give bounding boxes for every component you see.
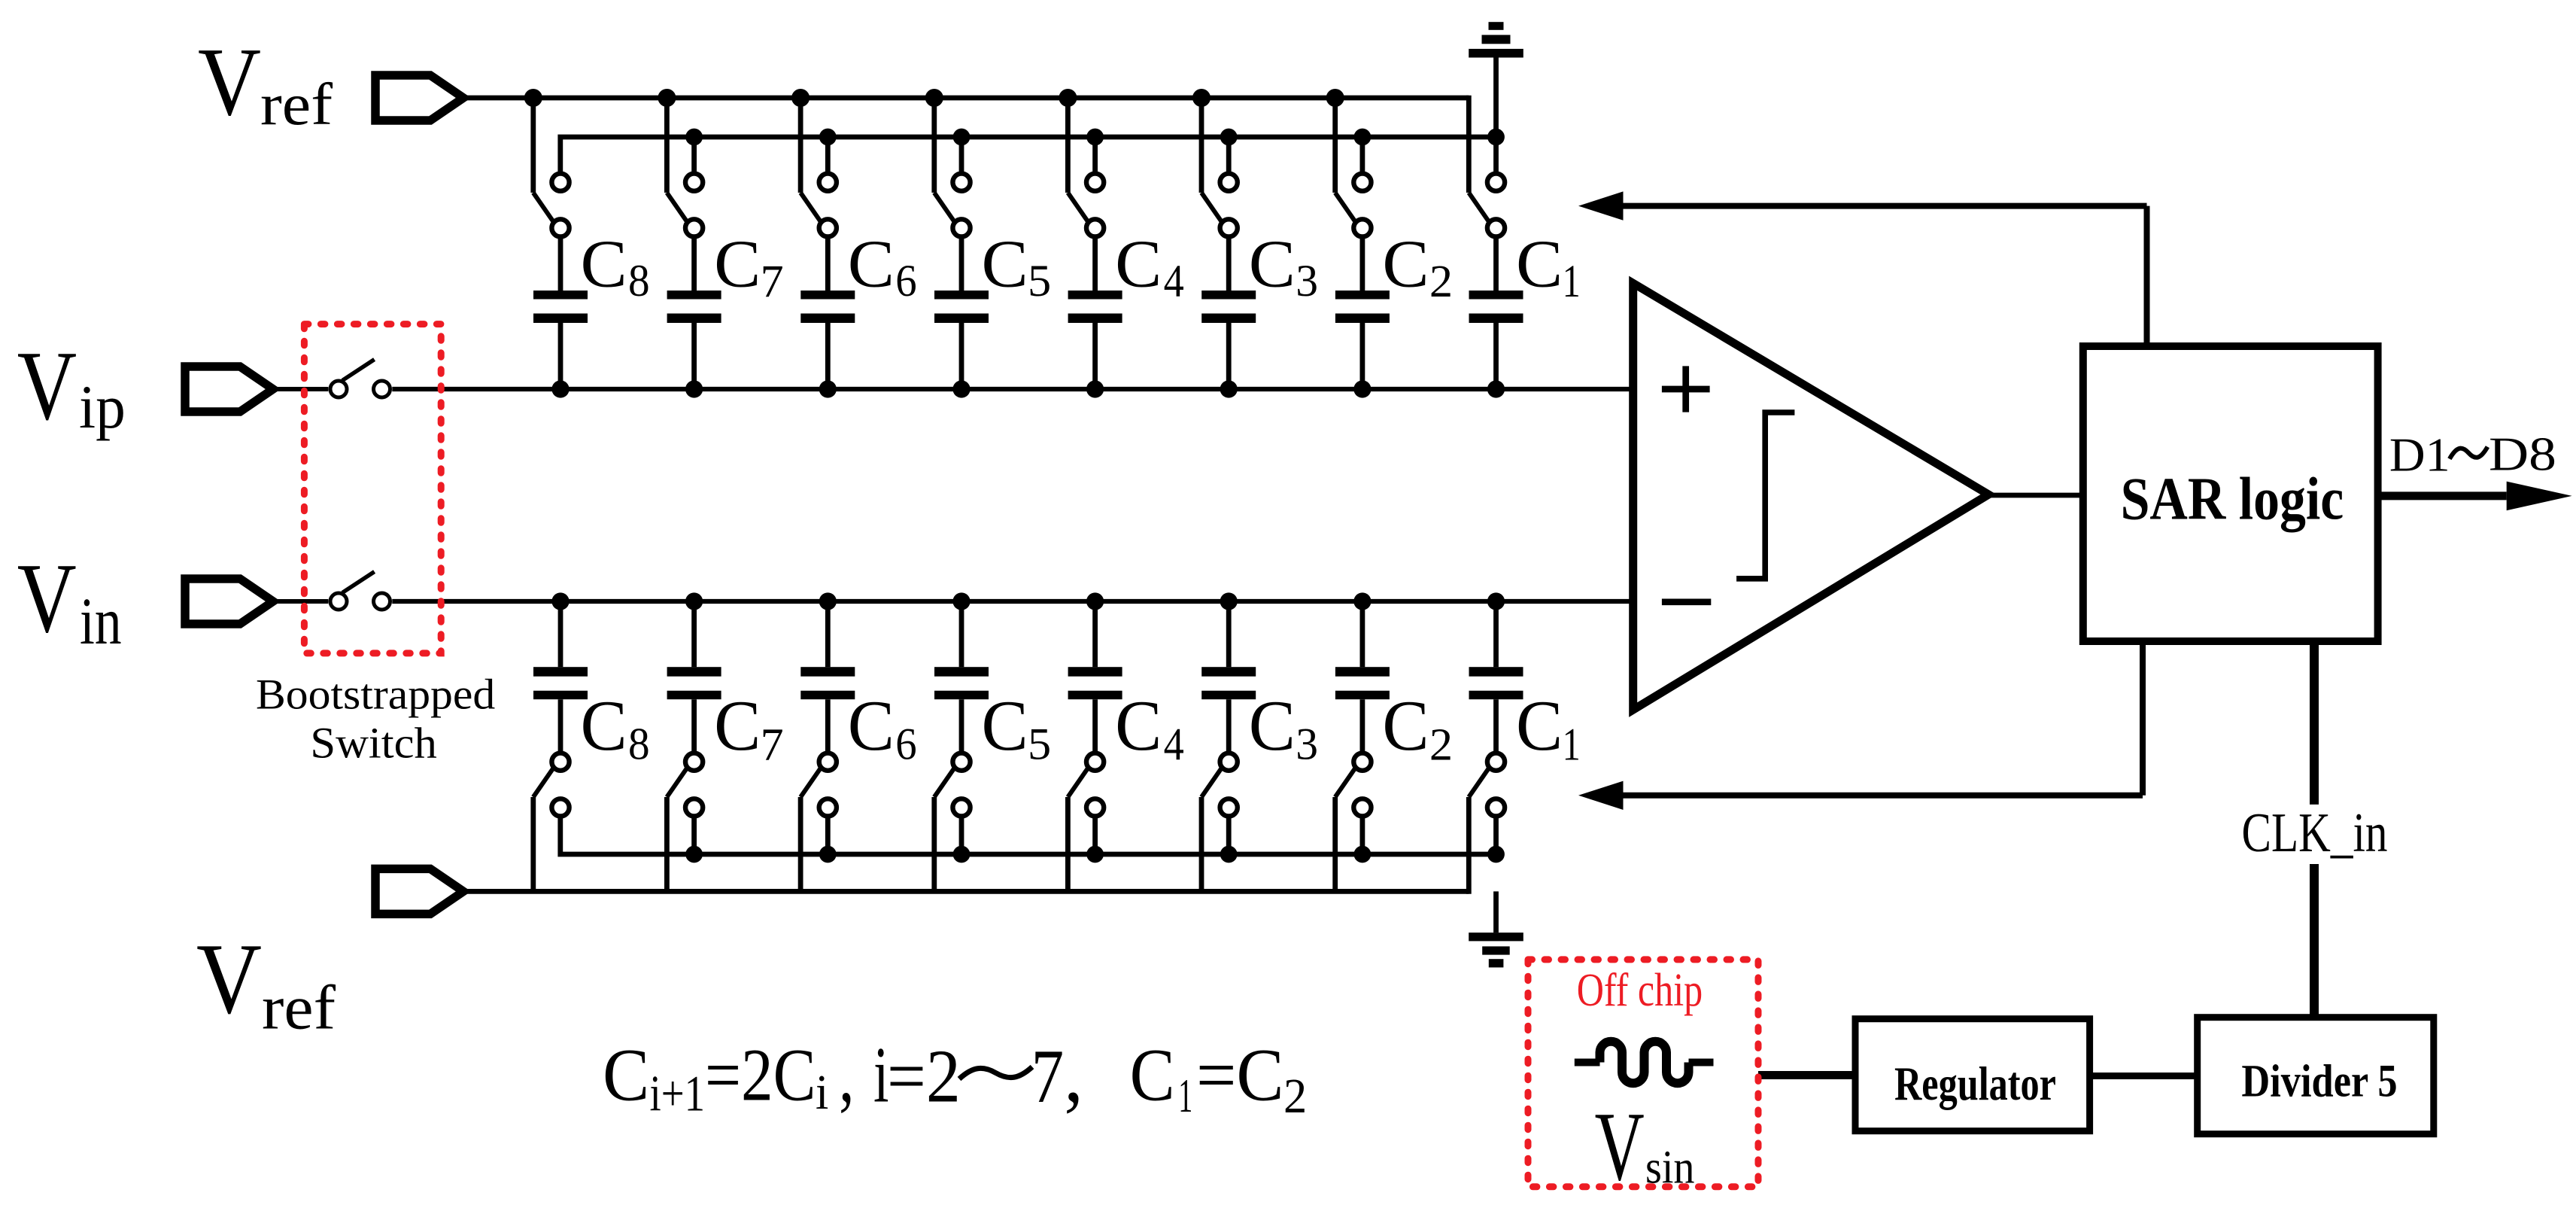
svg-text:C: C bbox=[581, 686, 627, 765]
svg-text:ref: ref bbox=[262, 972, 336, 1042]
svg-text:C: C bbox=[1115, 686, 1162, 765]
svg-text:C: C bbox=[714, 226, 761, 302]
svg-text:,: , bbox=[839, 1031, 855, 1118]
svg-text:C: C bbox=[1130, 1033, 1175, 1117]
svg-text:5: 5 bbox=[1028, 720, 1051, 770]
svg-text:6: 6 bbox=[895, 256, 916, 306]
svg-text:C: C bbox=[714, 686, 761, 765]
svg-text:2: 2 bbox=[1429, 256, 1453, 307]
svg-text:D8: D8 bbox=[2489, 427, 2556, 480]
svg-text:V: V bbox=[196, 923, 262, 1035]
svg-text:V: V bbox=[17, 543, 77, 653]
svg-text:C: C bbox=[1249, 226, 1296, 302]
svg-text:7: 7 bbox=[1031, 1033, 1065, 1118]
svg-text:C: C bbox=[581, 226, 627, 302]
svg-text:C: C bbox=[848, 226, 895, 302]
svg-text:2: 2 bbox=[1283, 1070, 1307, 1124]
svg-text:Divider 5: Divider 5 bbox=[2241, 1056, 2397, 1107]
svg-text:=C: =C bbox=[1196, 1033, 1284, 1117]
svg-text:5: 5 bbox=[1028, 256, 1051, 306]
svg-text:V: V bbox=[17, 331, 77, 441]
svg-text:i+1: i+1 bbox=[650, 1066, 706, 1122]
svg-text:C: C bbox=[603, 1033, 649, 1117]
svg-text:ip: ip bbox=[79, 373, 126, 441]
svg-text:7: 7 bbox=[761, 720, 784, 771]
svg-text:C: C bbox=[1382, 226, 1429, 302]
svg-text:Bootstrapped: Bootstrapped bbox=[256, 671, 495, 718]
svg-text:Regulator: Regulator bbox=[1894, 1057, 2056, 1110]
svg-text:1: 1 bbox=[1563, 256, 1581, 307]
svg-text:1: 1 bbox=[1178, 1069, 1192, 1122]
svg-text:4: 4 bbox=[1164, 256, 1184, 307]
svg-text:6: 6 bbox=[895, 720, 916, 770]
svg-text:8: 8 bbox=[628, 256, 650, 306]
svg-text:C: C bbox=[848, 686, 895, 765]
svg-text:4: 4 bbox=[1164, 720, 1184, 771]
svg-text:C: C bbox=[1382, 686, 1429, 765]
svg-text:,: , bbox=[1064, 1028, 1083, 1119]
svg-text:CLK_in: CLK_in bbox=[2242, 802, 2388, 863]
svg-text:C: C bbox=[1516, 686, 1563, 765]
svg-text:C: C bbox=[982, 686, 1028, 765]
svg-text:Switch: Switch bbox=[310, 719, 437, 768]
svg-text:1: 1 bbox=[1563, 720, 1581, 771]
svg-text:C: C bbox=[1249, 686, 1296, 765]
svg-text:ref: ref bbox=[260, 72, 333, 138]
svg-text:8: 8 bbox=[628, 720, 650, 770]
svg-text:sin: sin bbox=[1645, 1142, 1695, 1193]
svg-text:Off chip: Off chip bbox=[1577, 964, 1703, 1016]
svg-text:in: in bbox=[80, 585, 122, 659]
svg-text:3: 3 bbox=[1296, 256, 1318, 306]
svg-text:SAR logic: SAR logic bbox=[2121, 465, 2344, 532]
svg-text:D1: D1 bbox=[2389, 428, 2450, 481]
svg-text:V: V bbox=[198, 29, 261, 136]
svg-text:2: 2 bbox=[1429, 720, 1453, 771]
svg-text:=2: =2 bbox=[887, 1034, 961, 1118]
svg-text:V: V bbox=[1595, 1092, 1645, 1201]
svg-text:3: 3 bbox=[1296, 720, 1318, 770]
svg-text:=2C: =2C bbox=[705, 1033, 816, 1117]
svg-text:7: 7 bbox=[761, 256, 784, 307]
svg-text:i: i bbox=[816, 1066, 828, 1120]
svg-text:C: C bbox=[1115, 226, 1162, 302]
svg-text:C: C bbox=[1516, 226, 1563, 302]
svg-text:C: C bbox=[982, 226, 1028, 302]
